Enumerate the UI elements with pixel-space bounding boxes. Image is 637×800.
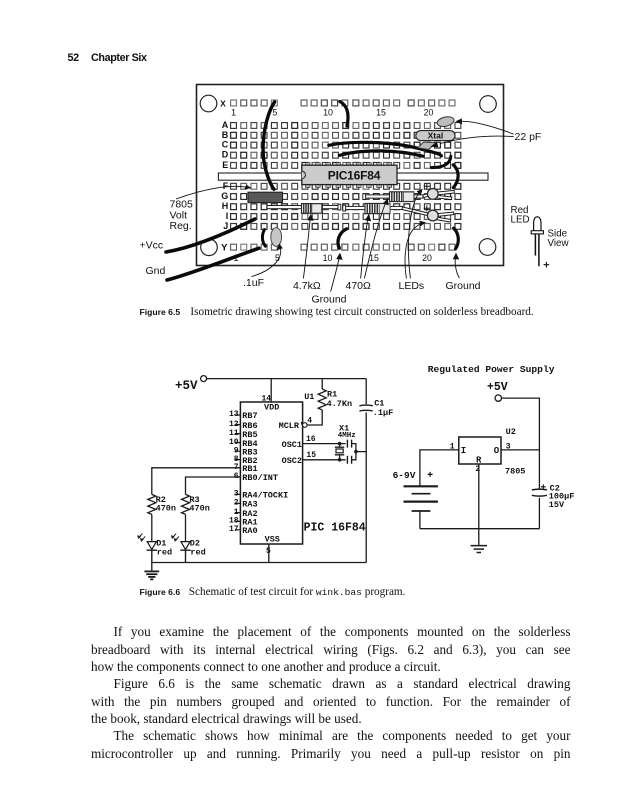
label R2 470 xyxy=(156,495,176,513)
capacitor .1uF body xyxy=(271,228,282,247)
breadboard row H holes xyxy=(231,204,461,210)
svg-text:Gnd: Gnd xyxy=(146,265,166,277)
svg-text:RB0/INT: RB0/INT xyxy=(242,473,278,483)
wire bottom rail right schematic xyxy=(420,528,540,530)
svg-text:OSC1: OSC1 xyxy=(282,440,302,450)
node +5V terminal left schematic xyxy=(201,376,207,382)
svg-text:C: C xyxy=(222,140,229,150)
wire Gnd lead xyxy=(167,248,259,280)
svg-text:15V: 15V xyxy=(549,500,565,510)
svg-text:G: G xyxy=(221,191,228,201)
svg-text:+Vcc: +Vcc xyxy=(140,240,164,252)
svg-text:5: 5 xyxy=(272,108,277,118)
svg-text:B: B xyxy=(222,130,229,140)
wire bottom ground rail xyxy=(152,562,366,564)
leader .1uF label xyxy=(252,243,283,276)
svg-text:4: 4 xyxy=(307,416,312,425)
node junction OSC1 xyxy=(338,442,342,446)
label R1 4.7K xyxy=(327,389,353,408)
svg-text:I: I xyxy=(461,446,466,456)
capacitor C1 xyxy=(359,405,372,411)
svg-text:7805: 7805 xyxy=(505,467,525,477)
svg-text:J: J xyxy=(223,221,228,231)
pin labels left side xyxy=(242,411,288,536)
svg-text:Xtal: Xtal xyxy=(428,130,444,140)
wire J10 to Y10 ground jumper xyxy=(338,229,347,248)
node junction caps common xyxy=(354,450,358,454)
svg-text:.1µF: .1µF xyxy=(373,408,393,418)
LED 1 body xyxy=(427,189,438,200)
svg-text:F: F xyxy=(223,181,229,191)
breadboard row E holes xyxy=(231,163,461,169)
svg-text:red: red xyxy=(157,547,172,557)
svg-text:A: A xyxy=(222,120,229,130)
op IC U1 PIC16F84 box xyxy=(240,402,302,544)
breadboard mounting hole top-right xyxy=(480,96,497,113)
resistor R1 xyxy=(318,379,326,410)
wire VSS pin 5 xyxy=(268,544,270,563)
capacitor C2 xyxy=(532,489,547,496)
leader 4.7k label xyxy=(303,214,313,279)
svg-text:10: 10 xyxy=(323,108,333,118)
label X1 4MHz xyxy=(338,423,356,440)
svg-text:PIC16F84: PIC16F84 xyxy=(328,168,381,182)
svg-text:Y: Y xyxy=(221,243,228,254)
svg-text:Reg.: Reg. xyxy=(170,220,192,232)
svg-text:470Ω: 470Ω xyxy=(346,280,372,292)
breadboard bottom power rail Y holes xyxy=(231,244,455,250)
breadboard row G holes xyxy=(231,194,461,200)
capacitor .1uF lead J4 to Y4 xyxy=(262,230,265,247)
svg-text:2: 2 xyxy=(475,465,480,474)
battery plates xyxy=(404,486,438,511)
wire battery to U2 input xyxy=(420,450,459,486)
svg-text:OSC2: OSC2 xyxy=(282,456,302,466)
svg-text:470n: 470n xyxy=(156,504,176,514)
svg-text:H: H xyxy=(222,201,229,211)
svg-text:15: 15 xyxy=(376,108,386,118)
LED 2 body xyxy=(427,210,438,221)
wire X5 to F5 xyxy=(263,102,275,190)
breadboard mounting hole bottom-left xyxy=(201,239,218,256)
breadboard row J holes xyxy=(231,224,461,230)
breadboard column numbers top xyxy=(231,108,433,118)
pin numbers left side xyxy=(229,410,239,534)
breadboard row C holes xyxy=(231,142,461,148)
pin stubs left side xyxy=(235,415,241,530)
svg-text:4.7kΩ: 4.7kΩ xyxy=(293,280,321,292)
svg-text:LEDs: LEDs xyxy=(399,280,425,292)
IC U1 PIC16F84 pin tabs xyxy=(305,163,391,188)
regulator U2 box xyxy=(459,437,501,464)
svg-text:470n: 470n xyxy=(189,504,209,514)
svg-text:I: I xyxy=(226,211,229,221)
LED 1 leads xyxy=(423,190,454,199)
svg-text:Ground: Ground xyxy=(446,280,481,292)
svg-text:RB7: RB7 xyxy=(242,411,257,421)
wire right rail above C1 xyxy=(365,379,367,405)
svg-text:13: 13 xyxy=(229,410,239,419)
LED 2 leads xyxy=(402,207,454,222)
resistor 470 upper body xyxy=(390,192,414,202)
label D1 red xyxy=(156,539,172,558)
svg-text:O: O xyxy=(494,446,500,456)
capacitor 22pF lower in schematic xyxy=(347,456,351,464)
capacitor 22pF upper in schematic xyxy=(347,440,351,448)
wire +5V to right rail xyxy=(502,398,540,489)
ground symbol left schematic xyxy=(144,563,159,580)
leader LEDs label to LED 1 xyxy=(408,189,422,279)
node +5V terminal right schematic xyxy=(495,395,501,401)
wire U2 R pin to ground xyxy=(478,464,480,545)
svg-text:22 pF: 22 pF xyxy=(515,131,542,143)
breadboard top power rail X holes xyxy=(231,100,455,106)
breadboard mounting hole bottom-right xyxy=(479,239,496,256)
LED 1 plus mark xyxy=(424,183,430,189)
label I O R pins xyxy=(461,446,500,465)
breadboard row I holes xyxy=(231,214,461,220)
resistor 470 upper leads xyxy=(363,194,423,200)
leader 7805 regulator label xyxy=(176,185,252,199)
svg-text:D: D xyxy=(222,150,229,160)
svg-text:4.7Kn: 4.7Kn xyxy=(327,399,353,409)
wire VDD pin 14 xyxy=(270,379,272,402)
svg-text:View: View xyxy=(548,238,570,249)
wire X12 to A12 xyxy=(340,102,348,127)
svg-text:VDD: VDD xyxy=(264,402,279,412)
svg-text:U1: U1 xyxy=(304,392,314,402)
node junction OSC2 xyxy=(338,458,342,462)
wire D21 to E20 xyxy=(432,156,451,167)
wire MCLR to R1 xyxy=(307,410,322,425)
svg-text:20: 20 xyxy=(422,253,432,263)
label C2 100uF 15V xyxy=(549,483,575,509)
leader Ground center label xyxy=(331,253,343,292)
breadboard row F holes xyxy=(231,183,461,189)
svg-text:4MHz: 4MHz xyxy=(338,432,356,440)
wire J22 to Y22 ground jumper xyxy=(454,228,459,249)
svg-text:10: 10 xyxy=(323,253,333,263)
resistor R2 xyxy=(148,494,156,541)
breadboard column numbers bottom xyxy=(234,253,432,263)
diode D2 LED xyxy=(171,534,191,563)
crystal Xtal body xyxy=(416,130,455,140)
svg-text:+5V: +5V xyxy=(175,379,198,393)
leader LEDs label to LED 2 xyxy=(405,221,426,279)
label D2 red xyxy=(190,539,206,558)
resistor 470 lower body xyxy=(365,203,390,213)
svg-text:17: 17 xyxy=(229,525,239,534)
svg-text:Regulated Power Supply: Regulated Power Supply xyxy=(428,364,555,375)
leader 470 label to upper resistor xyxy=(364,198,388,278)
leader 470 label to lower resistor xyxy=(361,214,372,278)
label R3 470 xyxy=(189,495,209,513)
wire right rail below C1 to ground rail xyxy=(365,412,367,562)
resistor R3 xyxy=(182,494,190,541)
svg-text:2: 2 xyxy=(234,499,239,508)
wire caps to common xyxy=(352,444,367,460)
svg-text:3: 3 xyxy=(234,490,239,499)
breadboard row A holes xyxy=(231,123,461,129)
breadboard mounting hole top-left xyxy=(200,95,217,112)
wire OSC1 xyxy=(303,443,346,445)
svg-text:.1uF: .1uF xyxy=(243,277,264,289)
breadboard center channel strip xyxy=(218,173,488,180)
svg-text:U2: U2 xyxy=(506,427,516,437)
resistor 4.7k leads xyxy=(267,204,341,210)
node MCLR circle xyxy=(303,423,308,428)
breadboard row D holes xyxy=(231,152,461,158)
svg-text:12: 12 xyxy=(229,420,239,429)
breadboard row letters xyxy=(220,98,229,253)
svg-text:LED: LED xyxy=(511,214,530,225)
svg-text:20: 20 xyxy=(424,108,434,118)
svg-text:11: 11 xyxy=(229,429,239,438)
svg-text:MCLR': MCLR' xyxy=(279,421,305,431)
wire D11 to C19 xyxy=(339,151,422,156)
wire +Vcc lead xyxy=(166,219,255,252)
svg-text:red: red xyxy=(190,547,205,557)
wire rail below C2 xyxy=(538,498,540,529)
label Red LED xyxy=(511,205,530,226)
crystal X1 xyxy=(335,444,344,460)
LED side view symbol xyxy=(531,217,543,266)
LED 2 plus mark xyxy=(424,205,430,211)
leader Ground right label xyxy=(453,253,460,279)
svg-text:1: 1 xyxy=(234,508,239,517)
svg-text:16: 16 xyxy=(306,435,316,444)
wire OSC2 xyxy=(303,459,346,461)
label C1 .1uF xyxy=(373,398,393,417)
leader 22pF to lower cap xyxy=(430,136,513,147)
IC U1 PIC16F84 body xyxy=(302,165,397,184)
capacitor 22pF upper body xyxy=(436,115,455,128)
svg-text:RA0: RA0 xyxy=(242,526,257,536)
label Side View xyxy=(548,229,570,250)
battery plus mark xyxy=(428,472,433,477)
svg-text:PIC 16F84: PIC 16F84 xyxy=(304,521,366,534)
diode D1 LED xyxy=(137,534,157,563)
wire C10 to D21 xyxy=(329,142,442,155)
leader 22pF to upper cap xyxy=(455,118,513,134)
wire RB1 to R2 xyxy=(152,468,241,495)
voltage regulator 7805 body xyxy=(248,192,283,202)
wire RB0 to R3 xyxy=(186,477,241,494)
C2 plus mark xyxy=(541,484,546,489)
svg-text:6-9V: 6-9V xyxy=(393,470,416,481)
wire U2 output to rail xyxy=(501,449,539,451)
svg-text:VSS: VSS xyxy=(265,535,280,545)
wire E22 to F22 xyxy=(453,165,458,188)
LED side view plus mark xyxy=(544,262,550,268)
svg-text:E: E xyxy=(222,160,228,170)
breadboard outline xyxy=(197,85,504,266)
label 7805 Volt Reg xyxy=(170,199,194,233)
svg-text:Ground: Ground xyxy=(312,293,347,305)
breadboard row B holes xyxy=(231,132,461,138)
wire +5V top rail xyxy=(207,378,367,380)
svg-text:1: 1 xyxy=(231,108,236,118)
resistor 470 lower leads xyxy=(343,205,403,211)
svg-text:X: X xyxy=(220,98,226,108)
resistor 4.7k body xyxy=(302,204,323,214)
wire battery negative to bottom rail xyxy=(419,511,421,529)
svg-text:15: 15 xyxy=(306,451,316,460)
capacitor 22pF lower body xyxy=(418,142,437,150)
svg-text:5: 5 xyxy=(266,547,271,556)
ground symbol right schematic xyxy=(471,546,487,553)
svg-text:+5V: +5V xyxy=(487,381,508,394)
